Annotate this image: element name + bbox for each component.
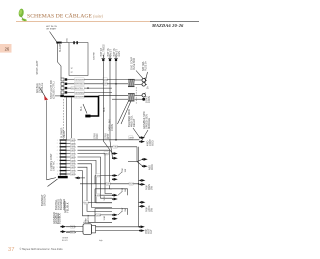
svg-text:RELAY: RELAY [132,118,136,127]
svg-text:MODULE: MODULE [147,118,151,129]
svg-text:UNIT A/C: UNIT A/C [53,161,56,171]
svg-text:(CRUISE CTRL): (CRUISE CTRL) [53,81,56,99]
svg-text:WHT/BLK: WHT/BLK [75,84,85,86]
svg-text:BLU/R: BLU/R [62,240,68,242]
svg-text:GRN/RED: GRN/RED [75,92,85,94]
svg-text:RED: RED [71,227,76,229]
svg-text:BLK: BLK [80,106,83,111]
svg-text:BLK/YEL: BLK/YEL [75,88,84,90]
svg-text:GRN: GRN [71,174,76,176]
svg-text:GRN: GRN [118,51,121,57]
svg-text:5GR: 5GR [104,215,106,220]
svg-text:high: high [99,240,103,242]
svg-text:BLK: BLK [130,184,135,186]
svg-text:11: 11 [57,174,59,176]
svg-text:SW: SW [125,208,127,211]
svg-text:15A: 15A [65,38,68,42]
svg-text:WHT: WHT [107,133,110,139]
svg-text:GROUND: GROUND [43,194,47,206]
svg-text:OR START: OR START [46,28,57,31]
svg-text:SW: SW [125,189,127,192]
svg-text:MAZDA6 20-26: MAZDA6 20-26 [151,23,184,28]
svg-text:BLU: BLU [85,203,90,205]
svg-text:BLK/WHT: BLK/WHT [59,41,62,52]
svg-text:SW: SW [125,169,127,172]
svg-text:MOD: MOD [152,140,155,146]
svg-text:MOTOR: MOTOR [88,214,90,222]
svg-text:BLU: BLU [71,232,76,234]
svg-text:37: 37 [8,247,14,253]
svg-text:FUSE BOX: FUSE BOX [133,58,136,70]
svg-text:GRN/WHT: GRN/WHT [75,96,85,98]
svg-text:ALL TIMES: ALL TIMES [103,44,106,56]
svg-text:26: 26 [5,47,10,52]
svg-text:GRN: GRN [97,175,102,177]
svg-text:GRN: GRN [104,79,109,81]
svg-text:STOP LIGHT: STOP LIGHT [36,60,39,75]
svg-text:WHT: WHT [129,138,134,140]
svg-text:RELAY: RELAY [63,130,66,138]
svg-text:WHT: WHT [107,184,112,186]
svg-text:ORN: ORN [96,133,99,139]
svg-text:GRN: GRN [97,195,102,197]
svg-text:MOD: MOD [151,164,154,170]
svg-text:10: 10 [57,170,59,172]
svg-text:IGN SW: IGN SW [94,52,96,60]
svg-text:GRN/WHT: GRN/WHT [75,79,85,81]
svg-text:CONN: CONN [148,96,151,103]
svg-text:GRN: GRN [97,215,102,217]
svg-text:CONN: CONN [111,124,114,131]
svg-text:WHT: WHT [104,84,109,86]
svg-text:YEL/BLK: YEL/BLK [66,202,70,213]
svg-text:FUSE B+: FUSE B+ [144,60,147,71]
svg-text:BLU/BLK: BLU/BLK [58,213,62,224]
svg-text:RLY: RLY [150,229,153,234]
svg-text:5GR: 5GR [104,196,106,201]
svg-text:© Haynes North America Inc. To: © Haynes North America Inc. Tous droits [20,248,64,251]
